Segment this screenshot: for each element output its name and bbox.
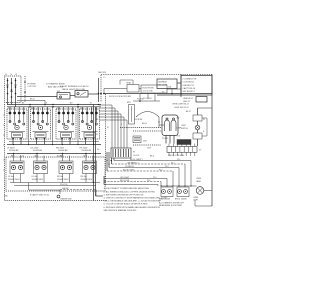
node junction bbox=[98, 93, 100, 95]
svg-text:P1: P1 bbox=[107, 127, 109, 129]
svg-text:3. SWITCHES SHOWN IN OFF POSIT: 3. SWITCHES SHOWN IN OFF POSITION bbox=[104, 194, 144, 196]
svg-text:1500W 240V: 1500W 240V bbox=[32, 179, 44, 181]
svg-text:LF 240V: LF 240V bbox=[7, 147, 15, 149]
switch S1 contacts bbox=[9, 121, 11, 123]
svg-text:DOOR LOCK MOTOR SW: DOOR LOCK MOTOR SW bbox=[109, 96, 131, 98]
surface element E2 bbox=[34, 161, 48, 174]
wire fan lead 5 bbox=[104, 178, 167, 180]
wire top loop bbox=[101, 73, 212, 75]
wire stub bbox=[119, 80, 121, 85]
note box right bbox=[181, 76, 212, 96]
svg-text:LIGHT: LIGHT bbox=[181, 125, 186, 127]
svg-text:1. DISCONNECT POWER BEFORE SER: 1. DISCONNECT POWER BEFORE SERVICING bbox=[104, 188, 150, 190]
wire elbow bbox=[28, 183, 30, 191]
wire bbox=[158, 117, 160, 128]
svg-text:CAVITY BK-16: CAVITY BK-16 bbox=[183, 87, 195, 90]
wire fan drop 4 bbox=[172, 171, 174, 186]
surface unit enclosure dashed bbox=[6, 157, 105, 191]
switch S4 contacts bbox=[82, 121, 84, 123]
infinite switch S3 bbox=[56, 109, 76, 139]
svg-text:2. ALL WIRING 18GA 105C COPPER: 2. ALL WIRING 18GA 105C COPPER UNLESS NO… bbox=[104, 190, 156, 193]
svg-text:LINE BR P12: LINE BR P12 bbox=[183, 85, 194, 87]
wire aux feed bbox=[17, 99, 45, 101]
svg-text:2 CONNECTOR: 2 CONNECTOR bbox=[183, 78, 197, 80]
svg-text:15A: 15A bbox=[168, 86, 172, 89]
connector P2 bbox=[167, 147, 197, 153]
svg-text:P2-6: P2-6 bbox=[147, 180, 150, 182]
svg-text:LF 6in: LF 6in bbox=[8, 176, 14, 178]
switch S3 pilot block bbox=[61, 133, 72, 138]
svg-text:2500W BK: 2500W BK bbox=[82, 150, 92, 152]
wire inter-module risers bbox=[28, 107, 30, 145]
svg-text:GND BK: GND BK bbox=[62, 188, 69, 190]
connector P1 bbox=[111, 148, 131, 158]
svg-text:R-14: R-14 bbox=[20, 156, 24, 158]
wire harness lead 4 bbox=[99, 113, 121, 115]
wire terminal drops bbox=[7, 101, 9, 105]
surface element E4 bbox=[83, 161, 97, 174]
svg-text:ALL ELEMENTS SHOWN OFF: ALL ELEMENTS SHOWN OFF bbox=[159, 201, 185, 204]
wire oven ground run bbox=[60, 189, 96, 191]
wire element leads bbox=[13, 174, 15, 183]
wire bbox=[70, 95, 75, 97]
bus wire A bbox=[103, 93, 212, 95]
motor M1 narrow bbox=[129, 105, 135, 125]
wire bbox=[95, 190, 97, 197]
wire riser dashed bbox=[100, 75, 102, 102]
bus wire D2 bbox=[9, 141, 99, 143]
svg-text:SW: SW bbox=[177, 118, 180, 120]
wire curve to latch bbox=[136, 112, 159, 118]
wire bbox=[36, 139, 38, 145]
wire bbox=[96, 195, 104, 197]
svg-text:GY: GY bbox=[97, 149, 100, 151]
svg-text:COLD. RESISTANCE VALUES ARE +/: COLD. RESISTANCE VALUES ARE +/- 10% AT R… bbox=[104, 200, 162, 203]
bus wire D bbox=[7, 144, 101, 146]
svg-text:BK-16 CAVITY: BK-16 CAVITY bbox=[130, 158, 143, 161]
bake element terminals bbox=[161, 187, 173, 197]
svg-text:GND GY: GND GY bbox=[183, 101, 191, 103]
wire bbox=[61, 139, 63, 145]
switch S4 pilot block bbox=[84, 133, 95, 138]
svg-text:CLOCK: CLOCK bbox=[133, 155, 140, 157]
svg-text:RF 240V: RF 240V bbox=[80, 147, 89, 149]
svg-text:CLOCK 15A: CLOCK 15A bbox=[143, 89, 154, 92]
svg-text:BU-W CONV: BU-W CONV bbox=[123, 169, 135, 171]
svg-text:W: W bbox=[96, 134, 98, 136]
svg-text:GRY BU-W L2: GRY BU-W L2 bbox=[183, 91, 195, 93]
wire bbox=[104, 184, 158, 186]
svg-text:SWITCH: SWITCH bbox=[181, 128, 188, 130]
wire latch feed bbox=[159, 124, 164, 126]
svg-text:5. COLOR CODE BK BLACK W WHITE: 5. COLOR CODE BK BLACK W WHITE R RED bbox=[104, 203, 148, 206]
wire fan drop 2 bbox=[184, 164, 186, 186]
wire right border bbox=[180, 74, 182, 97]
svg-text:LOOK BK-N2: LOOK BK-N2 bbox=[183, 82, 194, 84]
svg-text:8 CAVITY GND GY-16: 8 CAVITY GND GY-16 bbox=[30, 194, 49, 197]
svg-text:P2-2: P2-2 bbox=[171, 162, 174, 164]
svg-text:GND: GND bbox=[4, 196, 9, 198]
thermostat TS1 bbox=[127, 85, 139, 93]
svg-text:RF 8in: RF 8in bbox=[81, 176, 87, 178]
switch S5 surface light bbox=[57, 93, 70, 100]
wire fan drop 6 bbox=[160, 182, 162, 187]
wire bbox=[177, 82, 181, 84]
svg-text:BR-12: BR-12 bbox=[30, 99, 35, 101]
svg-text:P2-3: P2-3 bbox=[31, 108, 35, 110]
svg-text:LR 6in: LR 6in bbox=[32, 176, 38, 178]
terminal block TB1 bbox=[5, 76, 22, 103]
svg-text:P1-BK3: P1-BK3 bbox=[162, 138, 168, 140]
svg-text:LAMP: LAMP bbox=[196, 180, 202, 183]
svg-text:P2-GY-16: P2-GY-16 bbox=[60, 184, 67, 186]
surface element E3 bbox=[59, 161, 73, 174]
svg-text:LINE BK-12: LINE BK-12 bbox=[183, 98, 193, 100]
svg-text:SEE SERVICE MANUAL 16010345: SEE SERVICE MANUAL 16010345 bbox=[104, 209, 138, 212]
svg-text:CAUTION: CAUTION bbox=[98, 71, 107, 74]
svg-text:LIGHT SW GY-14: LIGHT SW GY-14 bbox=[174, 107, 189, 109]
broil element terminals bbox=[177, 187, 189, 197]
infinite switch S1 bbox=[7, 109, 27, 139]
wire bbox=[59, 190, 61, 194]
wire fan drop 3 bbox=[178, 168, 180, 187]
wire top feed bbox=[17, 96, 57, 98]
switch S3 contacts bbox=[58, 121, 60, 123]
svg-text:HI TEMP: HI TEMP bbox=[28, 83, 37, 85]
wire riser bbox=[98, 78, 100, 102]
oven lamp DS1 bbox=[195, 125, 200, 130]
infinite switch S2 bbox=[31, 109, 51, 139]
svg-text:2350W BK: 2350W BK bbox=[9, 150, 19, 152]
svg-text:LR 240V: LR 240V bbox=[31, 147, 39, 149]
svg-text:BK-8: BK-8 bbox=[150, 156, 154, 158]
svg-text:2350W 240V: 2350W 240V bbox=[8, 179, 20, 181]
svg-text:BAKE 2600W: BAKE 2600W bbox=[159, 197, 170, 200]
wire fan lead 6 bbox=[104, 181, 161, 183]
door latch assembly bbox=[162, 115, 178, 136]
svg-text:W: W bbox=[203, 119, 205, 121]
console boundary dashed left bbox=[4, 104, 6, 201]
wire fan lead 1 bbox=[114, 160, 191, 162]
svg-text:2500W 240V: 2500W 240V bbox=[81, 179, 93, 181]
light switch S7 bbox=[193, 115, 202, 121]
svg-text:OVEN: OVEN bbox=[196, 178, 202, 180]
svg-text:BR-14: BR-14 bbox=[142, 123, 147, 125]
svg-text:CUT-OUT: CUT-OUT bbox=[28, 86, 38, 88]
wire harness lead 5 bbox=[99, 116, 124, 118]
svg-text:TO CLOCK: TO CLOCK bbox=[143, 98, 152, 100]
clock timer A2 bbox=[141, 85, 167, 93]
svg-text:1500W BK: 1500W BK bbox=[33, 150, 43, 152]
wire drop bbox=[103, 89, 105, 94]
svg-text:LIGHT: LIGHT bbox=[193, 200, 199, 202]
svg-text:8: 8 bbox=[121, 124, 122, 126]
svg-text:TSTAT: TSTAT bbox=[126, 82, 131, 85]
wire harness lead 6 bbox=[99, 119, 127, 121]
oven control board A1 outline bbox=[120, 127, 161, 129]
svg-text:1500W 240V: 1500W 240V bbox=[57, 179, 69, 181]
wire element bus B bbox=[14, 185, 96, 187]
svg-text:DOV: DOV bbox=[147, 147, 152, 149]
fuse block dark bbox=[177, 140, 191, 145]
svg-text:RR 6in: RR 6in bbox=[57, 176, 63, 178]
svg-text:1500W BK: 1500W BK bbox=[58, 150, 68, 152]
wire bottom-right bus bbox=[161, 185, 191, 187]
wire oven feed bbox=[154, 94, 156, 102]
svg-text:P2-1: P2-1 bbox=[177, 159, 180, 161]
wire fan left risers bbox=[106, 152, 108, 171]
connector P2 pins bbox=[168, 152, 170, 156]
svg-text:DLB: DLB bbox=[143, 141, 147, 143]
svg-text:P2-3: P2-3 bbox=[165, 166, 168, 168]
svg-text:CHASSIS GND: CHASSIS GND bbox=[60, 198, 72, 201]
svg-text:P2-1: P2-1 bbox=[8, 108, 12, 110]
control board dashed bbox=[133, 144, 161, 146]
svg-text:TOD: TOD bbox=[177, 136, 181, 138]
wire fan drop 1 bbox=[190, 161, 192, 187]
wire element leads bbox=[62, 174, 64, 183]
svg-text:P2-5: P2-5 bbox=[57, 108, 61, 110]
thermal switch S8 bbox=[193, 133, 202, 139]
switch S1 pilot block bbox=[12, 133, 23, 138]
switch S6 valve bbox=[75, 91, 88, 98]
svg-text:RD DOOR: RD DOOR bbox=[120, 180, 130, 182]
wire harness lead 3 bbox=[99, 110, 118, 112]
wire fan drop 5 bbox=[166, 179, 168, 187]
wire bbox=[104, 88, 127, 90]
svg-text:RR 240V: RR 240V bbox=[56, 147, 65, 149]
svg-text:P2-5: P2-5 bbox=[153, 177, 156, 179]
svg-text:OVEN: OVEN bbox=[193, 197, 199, 199]
wire fan lead 3 bbox=[109, 167, 179, 169]
wire latch leads bbox=[165, 136, 167, 144]
bus wire C bbox=[7, 106, 101, 108]
wire harness lead 2 bbox=[99, 107, 115, 109]
wire element leads bbox=[85, 174, 87, 183]
svg-text:BROIL 3400W: BROIL 3400W bbox=[175, 198, 187, 200]
grounding screw bbox=[57, 195, 60, 198]
relay K1 bbox=[133, 136, 141, 143]
surface element E1 bbox=[10, 161, 24, 174]
oven lamp DS2 bbox=[196, 187, 204, 195]
svg-text:SURFACE: SURFACE bbox=[158, 81, 167, 84]
svg-text:MEASURE AT ROOM TEMP: MEASURE AT ROOM TEMP bbox=[159, 204, 183, 207]
switch S2 pilot block bbox=[35, 133, 46, 138]
svg-text:DOOR SW: DOOR SW bbox=[134, 119, 143, 121]
svg-text:BR BAKE L2: BR BAKE L2 bbox=[128, 161, 139, 164]
svg-text:P SOFT SURFACE 14-2 BK-16: P SOFT SURFACE 14-2 BK-16 bbox=[60, 85, 89, 88]
note box caution bbox=[157, 79, 177, 89]
wire bbox=[85, 139, 87, 145]
svg-text:GY BROIL: GY BROIL bbox=[125, 166, 135, 168]
wire stub right column bbox=[202, 117, 207, 119]
svg-text:P2-4: P2-4 bbox=[159, 169, 162, 171]
junction dots extra bbox=[93, 144, 94, 145]
svg-text:GY: GY bbox=[199, 150, 202, 152]
svg-text:OVEN LIGHT BK-12: OVEN LIGHT BK-12 bbox=[172, 104, 189, 106]
svg-text:P2-7: P2-7 bbox=[80, 108, 84, 110]
switch S2 contacts bbox=[33, 121, 35, 123]
infinite switch S4 bbox=[80, 109, 100, 139]
svg-text:ELECTRONIC: ELECTRONIC bbox=[143, 87, 155, 89]
svg-text:SW: SW bbox=[57, 91, 60, 93]
svg-text:OR LIGHT: OR LIGHT bbox=[120, 177, 130, 179]
wire fan lead 4 bbox=[107, 170, 173, 172]
svg-text:MTR: MTR bbox=[127, 102, 131, 104]
fusible link F1 bbox=[24, 76, 26, 102]
bus wire B bbox=[7, 104, 101, 106]
console boundary dashed bottom bbox=[5, 200, 108, 202]
console boundary dashed center bbox=[105, 94, 107, 186]
svg-text:IND LIGHT: IND LIGHT bbox=[158, 84, 168, 86]
svg-text:BK: BK bbox=[96, 119, 99, 121]
svg-text:6. REPLACE WIRE WITH SAME GAUG: 6. REPLACE WIRE WITH SAME GAUGE AND INSU… bbox=[104, 206, 161, 209]
svg-text:P1: P1 bbox=[133, 152, 135, 154]
wire bbox=[191, 185, 197, 187]
wire riser bundle bbox=[93, 105, 95, 201]
wire bottom right bbox=[195, 205, 212, 207]
wire fan lead 2 bbox=[112, 163, 186, 165]
svg-text:R: R bbox=[203, 131, 205, 133]
wire bbox=[12, 139, 14, 145]
svg-text:2 BK-12 GY W-14 BU: 2 BK-12 GY W-14 BU bbox=[168, 155, 185, 157]
svg-text:L1: L1 bbox=[104, 77, 106, 79]
wire harness lead 1 bbox=[99, 104, 112, 106]
bus wire E bbox=[7, 153, 101, 155]
svg-text:BU-14: BU-14 bbox=[57, 156, 62, 158]
svg-text:BK-12: BK-12 bbox=[186, 111, 191, 113]
control dashed inner bbox=[133, 130, 161, 132]
wire bbox=[197, 108, 199, 115]
wire element leads bbox=[36, 174, 38, 183]
console tick labels left bbox=[3, 114, 4, 116]
wire element bus A bbox=[10, 182, 100, 184]
